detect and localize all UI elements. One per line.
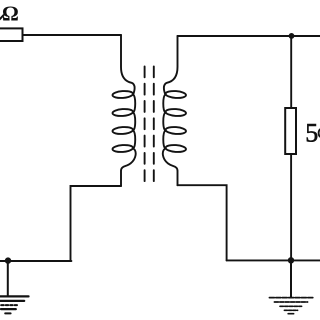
wire bottom-left to canvas edge: [0, 260, 71, 262]
label R1 partial digit tail at edge: [0, 15, 4, 20]
wire secondary bottom step (down-right): [178, 185, 227, 260]
wire junction down to R2: [290, 36, 292, 108]
label R2 value 5Ω (partial): [305, 119, 318, 148]
node junction top-right: [289, 33, 295, 39]
node junction bottom-left: [5, 257, 11, 263]
wire bottom-right to canvas edge: [227, 259, 320, 261]
transformer secondary winding L2 (right, mirror of L1): [163, 36, 186, 185]
svg-text:5: 5: [305, 119, 318, 148]
resistor R2 (vertical): [285, 108, 296, 154]
wire R2 bottom down to junction: [290, 154, 292, 260]
transformer core (two dashed lines): [145, 66, 154, 182]
transformer primary winding L1 (left): [112, 35, 135, 186]
ground (right, hatched): [269, 260, 313, 313]
label R2 unit partial (edge-clipped): [319, 129, 320, 137]
ground (left, hatched, cut by edge): [0, 261, 29, 313]
label R1 value (partial) Ω: [2, 2, 19, 26]
svg-text:Ω: Ω: [2, 2, 19, 26]
wire from R1 to transformer primary top: [23, 34, 122, 36]
wire primary bottom step (down-left): [71, 186, 122, 261]
wire secondary top to right edge: [178, 35, 320, 37]
node junction bottom-right: [288, 257, 294, 263]
resistor R1 (horizontal, cut off at left edge): [0, 28, 23, 41]
